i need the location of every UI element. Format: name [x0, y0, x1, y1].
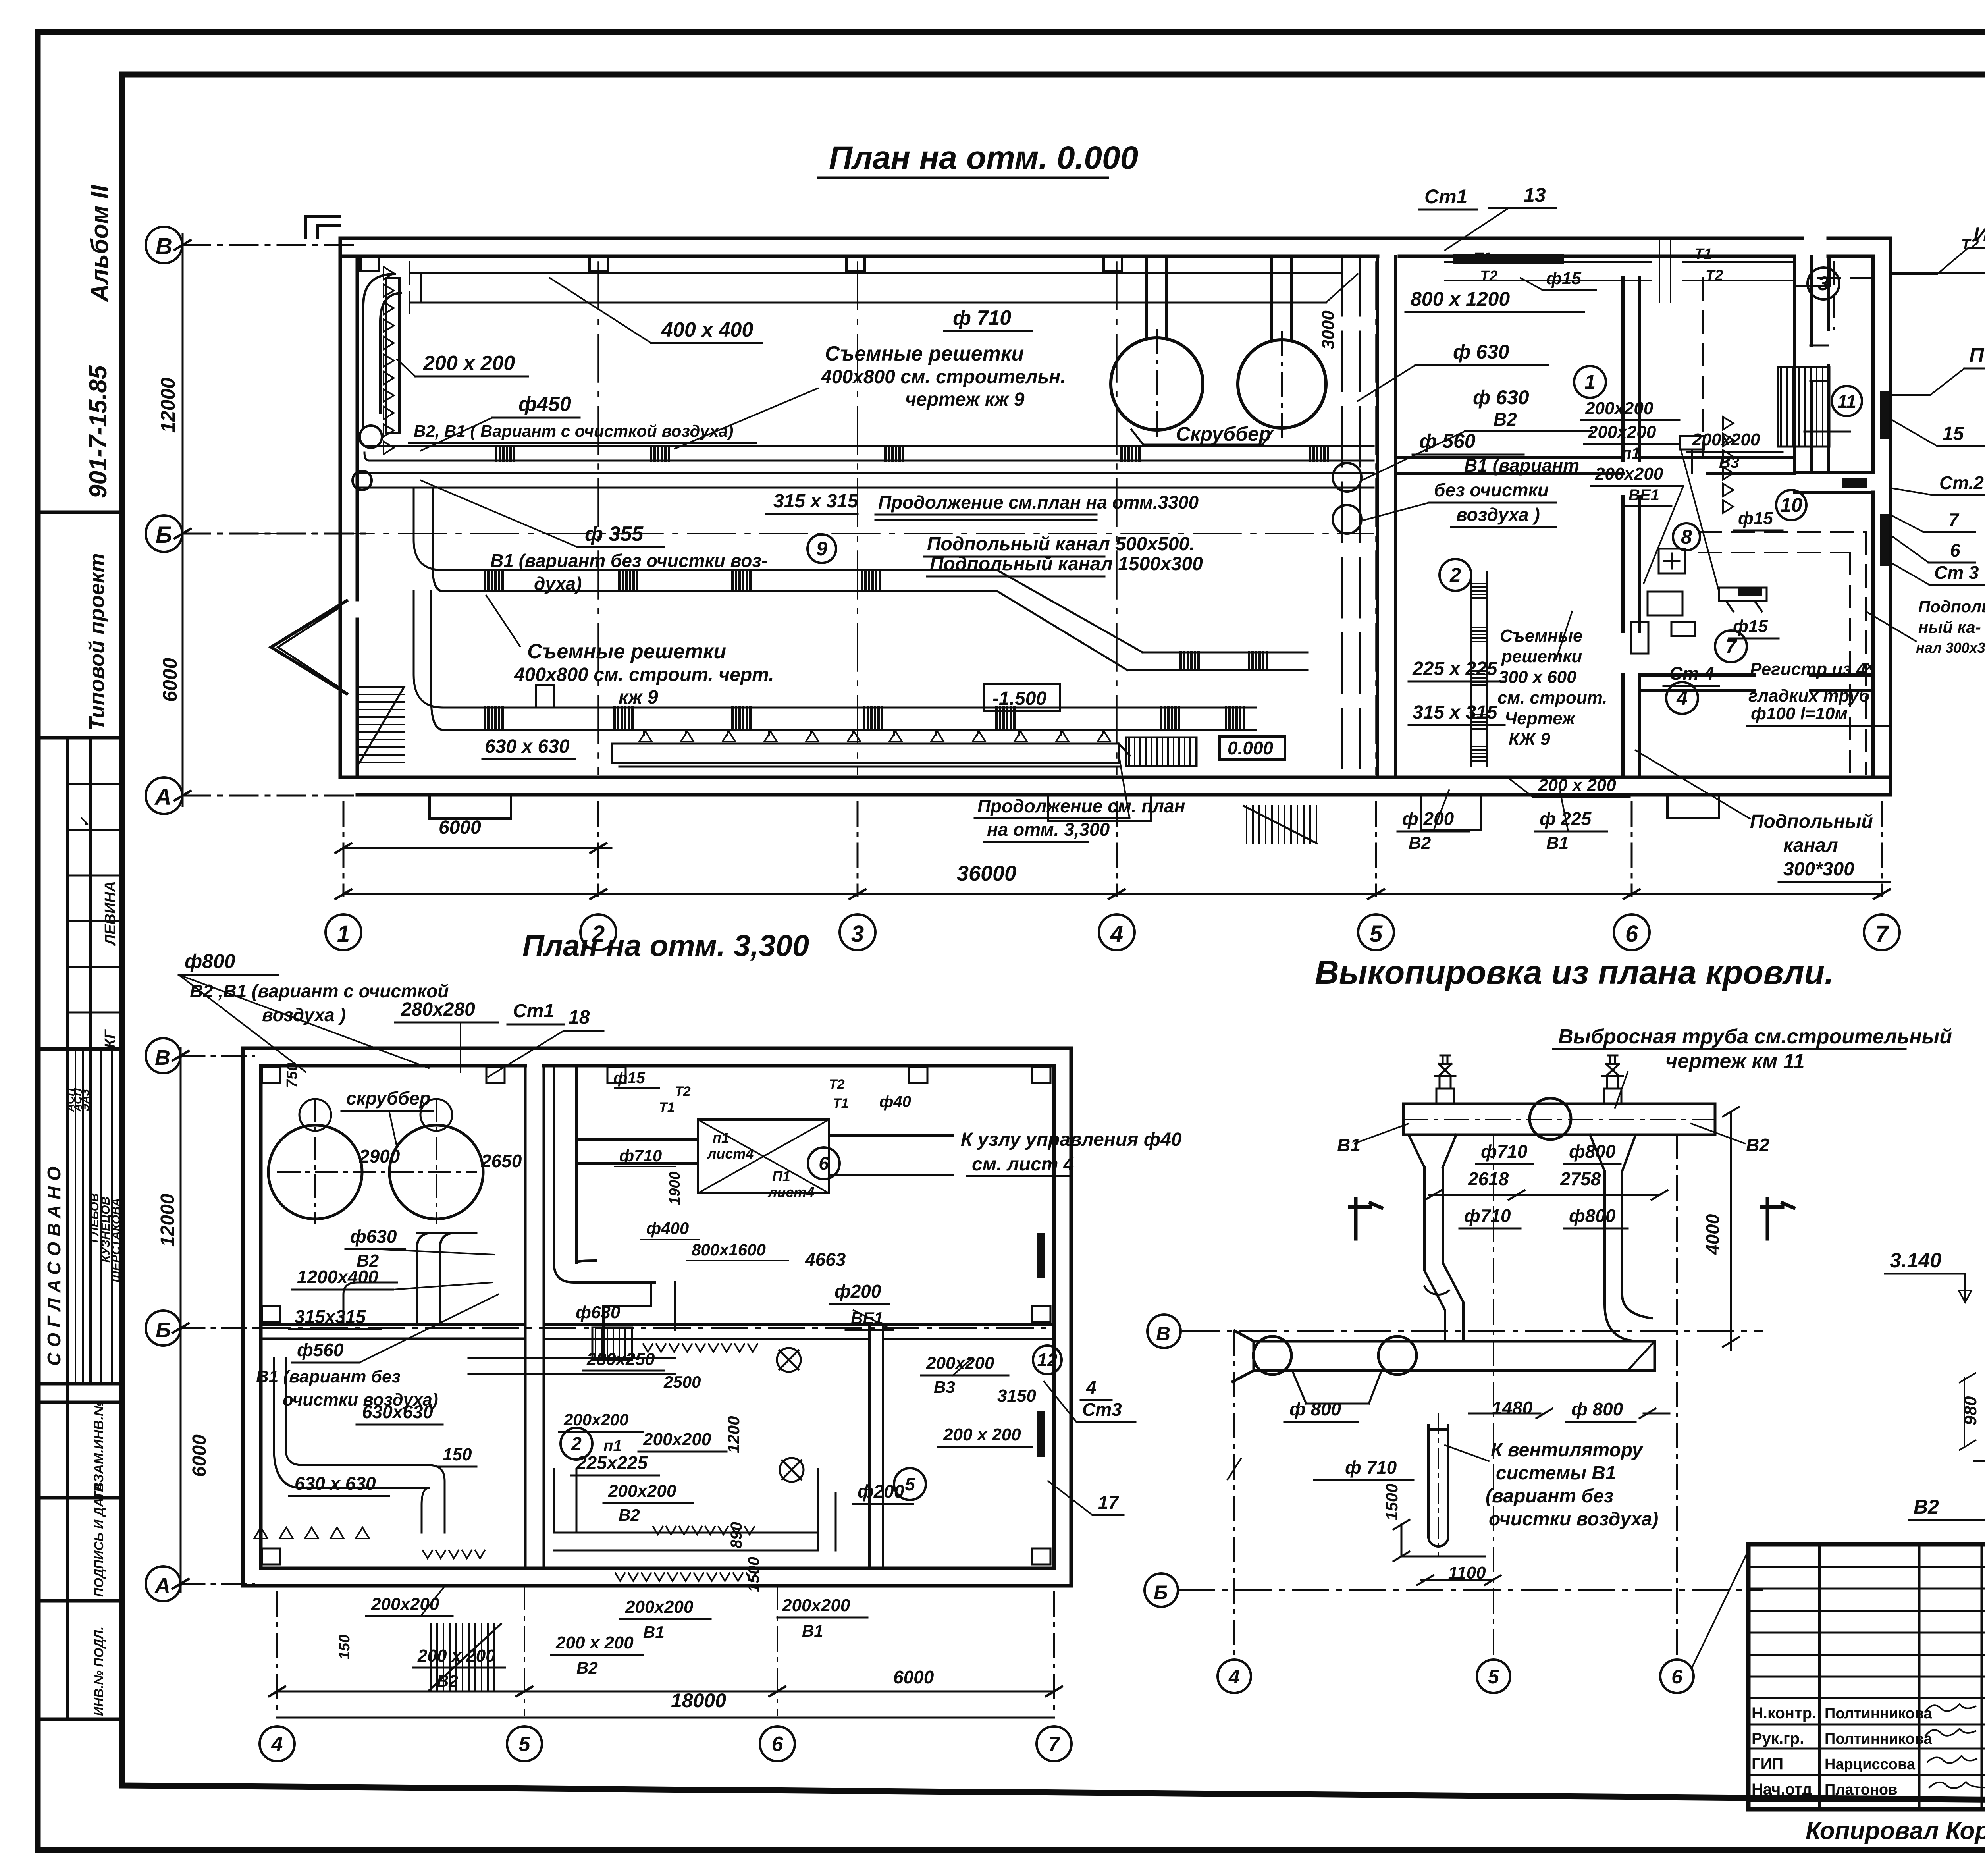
svg-text:6000: 6000 — [159, 658, 181, 702]
room number circles plan 0.000 — [807, 268, 1862, 714]
svg-text:ф800: ф800 — [185, 950, 235, 972]
svg-text:800 x 1200: 800 x 1200 — [1411, 288, 1510, 310]
svg-text:системы В1: системы В1 — [1496, 1463, 1616, 1484]
svg-text:630 x 630: 630 x 630 — [485, 736, 570, 757]
bottom protrusions — [430, 795, 1719, 830]
svg-text:В1 (вариант: В1 (вариант — [1464, 455, 1579, 476]
svg-text:5: 5 — [519, 1733, 531, 1756]
svg-text:К узлу управления ф40: К узлу управления ф40 — [961, 1129, 1182, 1150]
svg-text:План на отм. 0.000: План на отм. 0.000 — [829, 140, 1138, 176]
svg-text:2650: 2650 — [481, 1151, 522, 1171]
svg-text:7: 7 — [1725, 635, 1737, 657]
svg-text:200x200: 200x200 — [608, 1481, 676, 1501]
svg-text:Альбом II: Альбом II — [86, 184, 114, 303]
roof plan exhaust header duct — [1403, 1055, 1715, 1139]
svg-text:ИНВ.№ ПОДЛ.: ИНВ.№ ПОДЛ. — [92, 1627, 106, 1716]
svg-text:4: 4 — [1086, 1377, 1097, 1398]
section ground line — [1974, 1460, 1985, 1462]
svg-text:очистки воздуха): очистки воздуха) — [1489, 1509, 1658, 1530]
svg-text:ф 800: ф 800 — [1571, 1399, 1623, 1419]
svg-text:2500: 2500 — [663, 1373, 701, 1391]
hatched duct row 1 — [369, 446, 1374, 461]
roof plan section marks — [1350, 1199, 1794, 1239]
svg-text:9: 9 — [816, 538, 827, 560]
svg-text:(вариант без: (вариант без — [1486, 1486, 1613, 1507]
svg-text:15: 15 — [1943, 423, 1964, 444]
section dimensions — [1902, 1149, 1985, 1519]
svg-text:чертеж км 11: чертеж км 11 — [1665, 1050, 1805, 1073]
svg-text:В: В — [1156, 1323, 1170, 1345]
svg-text:18: 18 — [569, 1007, 590, 1028]
svg-text:ф 710: ф 710 — [1345, 1457, 1397, 1478]
svg-text:ф15: ф15 — [1738, 509, 1773, 528]
svg-text:7: 7 — [1048, 1733, 1061, 1756]
svg-text:Выкопировка из плана кровли: Выкопировка из плана кровли. — [1315, 954, 1834, 991]
air diffuser triangles column left — [384, 267, 394, 454]
svg-text:300 x 600: 300 x 600 — [1499, 667, 1576, 687]
svg-text:1500: 1500 — [1382, 1484, 1401, 1521]
svg-text:2758: 2758 — [1560, 1168, 1601, 1189]
svg-text:800x1600: 800x1600 — [692, 1240, 766, 1259]
svg-text:А: А — [154, 1574, 170, 1598]
svg-text:2: 2 — [1449, 564, 1461, 586]
svg-text:200 x 200: 200 x 200 — [423, 352, 515, 375]
svg-text:ф40: ф40 — [879, 1093, 911, 1111]
svg-text:200x200: 200x200 — [625, 1597, 694, 1617]
canopy top-left outside wall — [306, 216, 340, 238]
svg-text:ф710: ф710 — [1464, 1205, 1511, 1226]
svg-text:Скруббер: Скруббер — [1176, 423, 1271, 445]
svg-text:Нарциссова: Нарциссова — [1825, 1756, 1916, 1773]
svg-text:1500: 1500 — [745, 1557, 763, 1592]
svg-text:200 x 200: 200 x 200 — [1538, 775, 1616, 795]
svg-text:Т1: Т1 — [659, 1100, 675, 1115]
grate block — [1126, 737, 1197, 766]
fittings in rooms 8 and 4 — [1631, 345, 1828, 654]
grid axis verticals through plan — [254, 262, 1376, 774]
svg-text:7: 7 — [1948, 509, 1960, 530]
svg-text:Выбросная труба см.строительны: Выбросная труба см.строительный — [1558, 1025, 1952, 1048]
svg-text:Чертеж: Чертеж — [1505, 709, 1576, 728]
svg-text:нал 300x300: нал 300x300 — [1916, 640, 1985, 656]
svg-text:ГИП: ГИП — [1752, 1755, 1783, 1773]
svg-text:13: 13 — [1524, 184, 1546, 206]
svg-text:Б: Б — [156, 1318, 171, 1342]
svg-text:Полтинникова: Полтинникова — [1825, 1705, 1933, 1722]
svg-text:Полтинникова: Полтинникова — [1825, 1731, 1933, 1747]
svg-text:8: 8 — [1681, 526, 1692, 548]
svg-text:1200x400: 1200x400 — [297, 1267, 378, 1287]
svg-text:В2: В2 — [1409, 833, 1431, 853]
svg-text:200 х 200: 200 х 200 — [417, 1646, 495, 1666]
plan 3.300 vee rows — [643, 1344, 757, 1352]
plan 3.300 duct network — [274, 1067, 953, 1550]
Ct1 grate — [1453, 254, 1564, 264]
svg-text:4: 4 — [1110, 921, 1123, 947]
svg-text:7: 7 — [1875, 921, 1889, 947]
plan 3.300 fan symbols — [777, 1348, 804, 1482]
svg-text:ный ка-: ный ка- — [1918, 618, 1981, 636]
svg-text:18000: 18000 — [671, 1689, 726, 1712]
svg-text:150: 150 — [443, 1445, 472, 1464]
roof plan funnels — [1409, 1135, 1636, 1171]
svg-text:3.140: 3.140 — [1890, 1249, 1941, 1272]
svg-text:Съемные: Съемные — [1500, 626, 1583, 646]
svg-text:канал: канал — [1783, 835, 1838, 856]
sidebar text: inv n podl — [92, 1627, 106, 1716]
bottom margin handwriting — [1806, 1816, 1985, 1846]
svg-text:200x200: 200x200 — [1595, 464, 1663, 484]
scrubber feed pipes — [1147, 256, 1291, 341]
plan 0.000 labels — [414, 184, 1985, 880]
plan 3.300 axes and dimensions — [146, 1038, 1072, 1761]
svg-text:300*300: 300*300 — [1783, 859, 1854, 880]
svg-text:✓: ✓ — [77, 816, 93, 828]
svg-text:ф400: ф400 — [646, 1219, 689, 1238]
svg-text:решетки: решетки — [1501, 647, 1582, 666]
svg-text:Типовой проект: Типовой проект — [85, 553, 109, 731]
wall heating registers — [1738, 391, 1889, 596]
svg-text:5: 5 — [1488, 1666, 1499, 1688]
svg-text:А: А — [154, 784, 172, 810]
svg-text:В2: В2 — [619, 1506, 640, 1524]
svg-text:ф 710: ф 710 — [953, 307, 1011, 330]
svg-text:ПОДПИСЬ И ДАТА: ПОДПИСЬ И ДАТА — [92, 1483, 106, 1597]
svg-text:Ст1: Ст1 — [1424, 185, 1467, 208]
svg-text:1100: 1100 — [1448, 1563, 1486, 1583]
svg-text:4: 4 — [1228, 1666, 1240, 1688]
svg-text:6: 6 — [1671, 1666, 1683, 1688]
svg-text:ф630: ф630 — [576, 1303, 621, 1322]
svg-text:200x200: 200x200 — [782, 1596, 850, 1615]
svg-text:901-7-15.85: 901-7-15.85 — [85, 365, 112, 498]
svg-text:11: 11 — [1837, 391, 1856, 412]
svg-text:Б: Б — [1154, 1581, 1168, 1604]
hatched duct row 4 — [443, 708, 1256, 730]
svg-text:200x200: 200x200 — [1585, 399, 1654, 418]
hatched duct row 3 with bend — [443, 570, 1307, 670]
svg-text:6000: 6000 — [439, 817, 481, 838]
staircase room 5 — [1778, 367, 1829, 447]
svg-text:280x280: 280x280 — [401, 999, 475, 1020]
diffuser triangles row — [639, 731, 1110, 742]
sidebar text: 901-7-15.85 — [85, 365, 112, 498]
svg-text:п1: п1 — [603, 1437, 622, 1455]
svg-text:4663: 4663 — [805, 1249, 846, 1270]
svg-text:6: 6 — [819, 1153, 829, 1174]
entry porch arrow — [271, 601, 347, 694]
svg-text:2900: 2900 — [359, 1146, 400, 1166]
title block signatures — [1925, 1704, 1985, 1796]
svg-text:п1: п1 — [1622, 445, 1640, 462]
svg-text:3: 3 — [851, 921, 864, 947]
svg-text:ВЕ1: ВЕ1 — [1628, 486, 1659, 504]
svg-text:Продолжение см.план на отм.330: Продолжение см.план на отм.3300 — [878, 492, 1199, 513]
svg-text:5: 5 — [905, 1474, 915, 1494]
svg-text:Т1: Т1 — [833, 1096, 849, 1111]
svg-text:315 x 315: 315 x 315 — [773, 491, 859, 512]
svg-text:6: 6 — [1950, 540, 1960, 561]
svg-text:4: 4 — [271, 1733, 283, 1756]
svg-text:воздуха ): воздуха ) — [1456, 504, 1540, 525]
svg-text:Т2: Т2 — [675, 1084, 691, 1099]
vertical duct room 2 — [1471, 572, 1487, 766]
underfloor channel dashed — [1699, 262, 1873, 774]
title block frame — [1748, 1544, 1985, 1809]
svg-text:ф 630: ф 630 — [1453, 341, 1509, 363]
svg-text:В1 (вариант без: В1 (вариант без — [256, 1367, 401, 1386]
sidebar stamp column — [38, 512, 122, 1719]
svg-text:В1: В1 — [1546, 833, 1569, 853]
sidebar text: Album II — [86, 184, 114, 303]
svg-text:2: 2 — [571, 1433, 582, 1454]
svg-text:СОГЛАСОВАНО: СОГЛАСОВАНО — [44, 1161, 64, 1366]
svg-text:Т2: Т2 — [829, 1077, 845, 1092]
heating pipe inlet ф40 — [1893, 245, 1985, 273]
svg-text:12000: 12000 — [157, 378, 179, 433]
svg-text:12: 12 — [1037, 1350, 1058, 1370]
svg-text:П1: П1 — [772, 1168, 790, 1184]
level mark 0.000 — [1220, 737, 1285, 760]
svg-text:Т2: Т2 — [1706, 267, 1723, 284]
svg-text:6000: 6000 — [189, 1434, 210, 1477]
svg-text:п1: п1 — [713, 1130, 729, 1146]
svg-text:ф630: ф630 — [350, 1226, 397, 1247]
plan 0.000 bottom axis circles and dims — [326, 802, 1900, 950]
svg-text:0.000: 0.000 — [1228, 738, 1274, 758]
duct pair row 2 — [353, 471, 1374, 490]
svg-text:ф450: ф450 — [518, 393, 571, 416]
floor channel outline — [612, 744, 1130, 767]
svg-text:ф 800: ф 800 — [1289, 1399, 1341, 1419]
plan 3.300 triangles — [254, 1527, 369, 1539]
svg-text:-1.500: -1.500 — [992, 688, 1046, 709]
svg-text:ф800: ф800 — [1569, 1141, 1616, 1162]
roof plan axis circles — [1154, 1323, 1694, 1693]
svg-text:150: 150 — [336, 1635, 353, 1660]
svg-text:10: 10 — [1780, 494, 1802, 516]
svg-text:980: 980 — [1961, 1396, 1980, 1425]
plan 3.300 labels — [185, 950, 1182, 1677]
svg-text:3: 3 — [1818, 272, 1829, 295]
svg-text:Ст3: Ст3 — [1082, 1399, 1122, 1420]
diffuser triangles column right — [1723, 417, 1733, 513]
plan 0.000 title — [829, 140, 1138, 176]
svg-text:Т2: Т2 — [1480, 268, 1497, 285]
svg-text:200 x 200: 200 x 200 — [943, 1425, 1021, 1444]
plan 0.000 building outer walls — [340, 238, 1891, 795]
svg-text:5: 5 — [1370, 921, 1383, 947]
svg-text:Подпольный канал 500x500.: Подпольный канал 500x500. — [927, 534, 1195, 555]
svg-text:Подполь-: Подполь- — [1918, 597, 1985, 616]
svg-text:гладких труб: гладких труб — [1748, 686, 1870, 706]
svg-text:Съемные решетки: Съемные решетки — [527, 640, 726, 663]
svg-text:ЛЕВИНА: ЛЕВИНА — [102, 881, 119, 946]
svg-text:В: В — [155, 1046, 170, 1070]
svg-text:лист4: лист4 — [767, 1184, 814, 1200]
roof plan lower duct — [1233, 1331, 1655, 1404]
title block texts — [1752, 1578, 1985, 1803]
svg-text:17: 17 — [1098, 1492, 1120, 1513]
svg-text:Нач.отд: Нач.отд — [1752, 1781, 1812, 1798]
interior walls right section — [1378, 256, 1873, 777]
svg-text:В2 ,В1 (вариант с очисткой: В2 ,В1 (вариант с очисткой — [190, 981, 449, 1001]
svg-text:ф15: ф15 — [1546, 269, 1581, 288]
sidebar text: Levina, KG — [77, 816, 119, 1048]
svg-text:скруббер: скруббер — [346, 1088, 431, 1109]
roof plan riser pipes — [1424, 1167, 1652, 1341]
roof plan standalone pipe — [1428, 1413, 1448, 1556]
plan 3.300 room circles — [561, 1147, 1062, 1500]
svg-text:Съемные решетки: Съемные решетки — [825, 342, 1024, 365]
plan 3.300 building walls — [243, 1048, 1071, 1586]
svg-text:4: 4 — [1676, 687, 1688, 709]
svg-text:В: В — [156, 233, 172, 259]
roof plan title — [1315, 954, 1834, 991]
svg-text:В1: В1 — [802, 1621, 823, 1640]
svg-text:Рук.гр.: Рук.гр. — [1752, 1730, 1804, 1747]
svg-text:630х630: 630х630 — [362, 1402, 433, 1422]
svg-text:200x200: 200x200 — [1588, 422, 1656, 442]
svg-text:ф800: ф800 — [1569, 1205, 1616, 1226]
svg-text:400x800 см. строит. черт.: 400x800 см. строит. черт. — [514, 664, 774, 685]
sidebar text: vzam inv — [91, 1401, 106, 1492]
svg-text:Ст 4: Ст 4 — [1669, 663, 1714, 684]
svg-text:200x200: 200x200 — [371, 1595, 439, 1614]
svg-text:4000: 4000 — [1702, 1214, 1723, 1255]
section labels — [1890, 1131, 1985, 1548]
svg-text:КЖ 9: КЖ 9 — [1509, 729, 1550, 749]
svg-text:см. лист 4: см. лист 4 — [972, 1154, 1074, 1175]
svg-text:ф560: ф560 — [297, 1340, 344, 1360]
T1 T2 risers — [1445, 238, 1830, 302]
svg-text:36000: 36000 — [957, 862, 1016, 885]
svg-text:1: 1 — [1584, 371, 1596, 393]
svg-text:3150: 3150 — [997, 1386, 1036, 1406]
svg-text:200x200: 200x200 — [643, 1430, 711, 1449]
svg-text:Подпольный канал 300x300: Подпольный канал 300x300 — [1969, 344, 1985, 367]
svg-text:6: 6 — [1625, 921, 1638, 947]
svg-text:на отм. 3,300: на отм. 3,300 — [987, 819, 1110, 840]
svg-text:В2: В2 — [1746, 1135, 1769, 1155]
svg-text:см. строит.: см. строит. — [1497, 688, 1607, 708]
svg-text:В1: В1 — [1337, 1135, 1361, 1155]
svg-text:400 x 400: 400 x 400 — [661, 318, 753, 341]
svg-text:12000: 12000 — [157, 1193, 178, 1247]
roof plan labels — [1476, 1163, 1621, 1165]
svg-text:200x200: 200x200 — [1692, 430, 1760, 449]
svg-text:Платонов: Платонов — [1825, 1782, 1897, 1798]
svg-text:ВЗАМ.ИНВ.№: ВЗАМ.ИНВ.№ — [91, 1401, 106, 1492]
plan 0.000 left axis circles and dim line — [146, 227, 365, 814]
svg-text:ф 200: ф 200 — [1402, 808, 1454, 829]
sidebar text: Soglasovano block — [44, 1088, 123, 1366]
left wall lower stair — [359, 687, 404, 763]
svg-text:1200: 1200 — [724, 1416, 743, 1453]
svg-text:Ст1: Ст1 — [513, 1001, 554, 1022]
svg-text:ф200: ф200 — [834, 1281, 881, 1301]
svg-text:К вентилятору: К вентилятору — [1491, 1440, 1644, 1461]
svg-text:ЭАЗ: ЭАЗ — [79, 1089, 91, 1112]
sidebar text: Tipovoy proekt — [85, 553, 109, 731]
svg-text:чертеж кж 9: чертеж кж 9 — [905, 389, 1025, 410]
svg-text:ф710: ф710 — [1481, 1141, 1528, 1162]
svg-text:КГ: КГ — [102, 1029, 119, 1048]
duct 400x400 run — [410, 262, 1358, 314]
leader to title block — [1692, 1550, 1748, 1668]
svg-text:Т1: Т1 — [1694, 246, 1712, 262]
svg-text:В3: В3 — [934, 1378, 955, 1396]
plan 3.300 stair hatch — [592, 1327, 632, 1360]
svg-text:315x315: 315x315 — [295, 1306, 366, 1327]
svg-text:ф710: ф710 — [619, 1146, 662, 1165]
vertical channel 3000 with risers — [1333, 256, 1361, 777]
svg-text:В2: В2 — [1914, 1496, 1939, 1518]
svg-text:ф100 l=10м: ф100 l=10м — [1751, 704, 1848, 723]
svg-text:Б: Б — [156, 522, 172, 548]
svg-text:890: 890 — [728, 1522, 745, 1548]
plan 3.300 wall registers — [1037, 1233, 1045, 1457]
svg-text:Подпольный: Подпольный — [1750, 811, 1873, 832]
svg-text:1900: 1900 — [667, 1171, 683, 1205]
plan 3.300 bottom stair — [428, 1624, 501, 1691]
svg-text:кж 9: кж 9 — [619, 687, 658, 708]
svg-text:Ст.2: Ст.2 — [1939, 472, 1984, 493]
svg-text:В2: В2 — [576, 1658, 598, 1677]
svg-text:315 x 315: 315 x 315 — [1413, 702, 1498, 723]
svg-text:ШЕРСТАКОВА: ШЕРСТАКОВА — [110, 1198, 123, 1282]
level mark -1.500 — [984, 684, 1060, 711]
svg-text:6: 6 — [772, 1733, 784, 1756]
svg-text:В1: В1 — [643, 1623, 665, 1641]
svg-text:В2: В2 — [437, 1672, 458, 1690]
svg-text:630 х 630: 630 х 630 — [295, 1473, 376, 1494]
wall piers — [360, 256, 1122, 271]
svg-text:200 х 200: 200 х 200 — [555, 1633, 634, 1652]
svg-text:Продолжение см. план: Продолжение см. план — [977, 796, 1185, 816]
plan 3.300 scrubbers — [268, 1099, 483, 1223]
scrubber vessels — [1111, 330, 1326, 445]
svg-text:Из теплосети ф40: Из теплосети ф40 — [1973, 223, 1985, 246]
sidebar text: podpis i data — [92, 1483, 106, 1597]
duct 200x200 vertical at left wall — [360, 274, 401, 448]
svg-text:Копировал Корецкая: Копировал Корецкая — [1806, 1817, 1985, 1845]
svg-text:1: 1 — [337, 921, 350, 947]
svg-text:План на отм. 3,300: План на отм. 3,300 — [522, 929, 809, 963]
svg-text:В1 (вариант без очистки воз-: В1 (вариант без очистки воз- — [490, 550, 767, 571]
svg-text:3000: 3000 — [1318, 310, 1338, 349]
svg-text:200x200: 200x200 — [926, 1353, 994, 1373]
svg-text:духа): духа) — [534, 573, 582, 594]
svg-text:Ст 3: Ст 3 — [1934, 562, 1979, 583]
svg-text:без очистки: без очистки — [1434, 480, 1549, 500]
svg-text:200х200: 200х200 — [563, 1410, 629, 1429]
svg-text:Н.контр.: Н.контр. — [1752, 1704, 1816, 1722]
svg-text:ф 630: ф 630 — [1473, 386, 1529, 409]
svg-text:2618: 2618 — [1468, 1168, 1509, 1189]
svg-text:ф200: ф200 — [858, 1481, 904, 1502]
plan 3.300 title — [522, 929, 809, 963]
stairs bottom middle — [1244, 806, 1317, 843]
svg-text:Регистр из 4х: Регистр из 4х — [1750, 659, 1873, 679]
svg-text:225 x 225: 225 x 225 — [1412, 658, 1498, 679]
svg-text:В3: В3 — [1719, 454, 1739, 471]
svg-text:лист4: лист4 — [707, 1145, 754, 1162]
hall duct left elbows — [359, 437, 554, 730]
roof plan axes — [1145, 1107, 1763, 1660]
svg-text:280x250: 280x250 — [586, 1350, 655, 1369]
svg-text:ф15: ф15 — [613, 1069, 646, 1087]
